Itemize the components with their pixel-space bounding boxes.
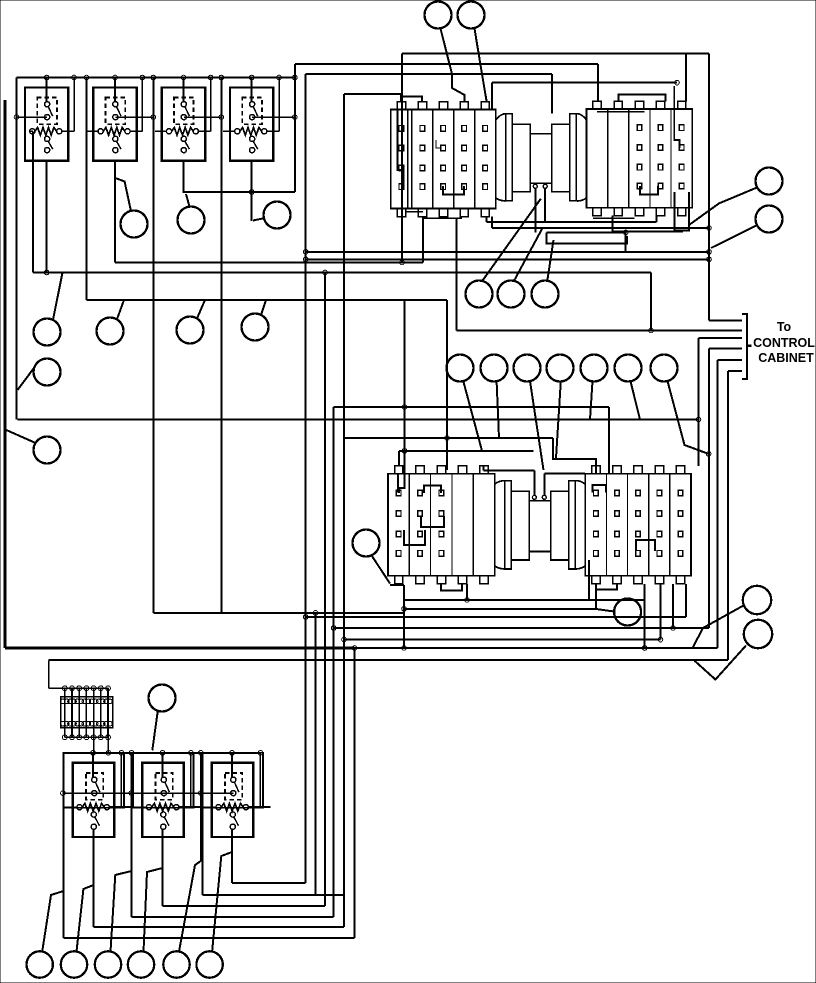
- junction x467 / y600: [465, 598, 470, 603]
- wire run y938: [64, 937, 355, 939]
- wire P1 internal divider wire: [407, 110, 409, 209]
- junction bus / drop x86: [84, 75, 89, 80]
- coupling shaft: [530, 134, 551, 184]
- wire run y470 terminal A: [484, 470, 535, 472]
- relay K3 lower switch: [181, 136, 186, 141]
- connector P2 bottom terminal lug 1: [593, 208, 601, 216]
- junction bus / relay K1 contact feed: [44, 75, 49, 80]
- wire run y617: [306, 616, 686, 618]
- coupling flare right (middle assembly): [576, 481, 585, 484]
- relay K6 coil enclosure (dashed): [155, 773, 172, 800]
- junction riser x355 / y648 run: [352, 646, 357, 651]
- coupling flare left (top assembly): [496, 114, 506, 120]
- wire cabinet lead 3: [699, 337, 742, 339]
- connector P2 pin col3 row3: [637, 164, 642, 170]
- junction y232 / drop x626: [623, 230, 628, 235]
- connector P1 top terminal lug 3: [439, 102, 447, 110]
- junction y83 / drop x677: [675, 80, 680, 85]
- wire relay K3 contact feed: [184, 116, 222, 118]
- wire bus to relay K7 top contact: [231, 753, 233, 777]
- wire relay K2 heater drop from bus: [141, 78, 143, 132]
- leader callout 15: [514, 228, 543, 281]
- wire run y94 to P1 lug1: [344, 93, 401, 95]
- leader callout 21: [590, 381, 593, 419]
- coupling terminal A: [532, 495, 536, 499]
- junction y259 / bundle riser x306: [303, 257, 308, 262]
- wire run y262 from K2 output: [115, 262, 423, 264]
- callout 1 (connector P1): [425, 2, 452, 29]
- connector Q1 pin col3 row3: [439, 531, 444, 537]
- leader callout 28: [152, 711, 158, 751]
- wire run y232: [546, 231, 625, 233]
- wire bus to relay K6 top contact: [162, 753, 164, 777]
- connector Q1 top terminal lug 1: [395, 466, 403, 474]
- svg-text:To: To: [777, 320, 792, 334]
- junction y420 / x698 drop: [696, 417, 701, 422]
- connector Q1 section divider 4: [472, 474, 474, 576]
- connector Q1 top terminal lug 5: [480, 466, 488, 474]
- leader callout 9: [117, 300, 124, 319]
- wire Q1 internal U cols2-3 row3: [421, 516, 444, 527]
- wire relay K4 contact feed: [252, 116, 295, 118]
- junction feed line / bus-end drop: [293, 115, 298, 120]
- connector P2 section divider 3: [649, 109, 651, 208]
- callout 20 (wire y474): [547, 355, 574, 382]
- wire P2 under-lug link y218: [593, 217, 634, 219]
- connector Q2 section divider 3: [648, 474, 650, 576]
- junction bus / drop x153: [151, 75, 156, 80]
- junction y640 / riser x344: [342, 637, 347, 642]
- wire relay K4 output drop: [251, 161, 253, 221]
- wire run y473 terminal B: [544, 473, 585, 475]
- connector Q1 top terminal lug 4: [458, 466, 466, 474]
- junction bus / relay K4 heater drop: [277, 75, 282, 80]
- relay K4 heater element: [240, 128, 262, 136]
- wire cabinet lead 2 run: [457, 330, 742, 332]
- wire bus to relay K4 top contact: [251, 78, 253, 102]
- wire drop x447 into Q1: [446, 300, 448, 470]
- wire bus left end drop: [16, 78, 18, 118]
- terminal TB1-5: [93, 688, 95, 737]
- leader callout 13: [5, 430, 35, 443]
- junction lead4 / callout 23 leader: [706, 452, 711, 457]
- wire TB1 feed drop: [48, 660, 50, 688]
- wire cabinet lead 4: [709, 347, 742, 349]
- connector Q1 section divider 2: [430, 474, 432, 576]
- connector P1 section divider 3: [453, 110, 455, 209]
- bracket nub: [747, 345, 752, 347]
- junction y272 / riser x325: [323, 270, 328, 275]
- leader callout 31: [111, 871, 132, 952]
- coupling drum (right): [551, 491, 569, 560]
- callout 10 (wire y296): [177, 317, 204, 344]
- wire Q2 under-lug link: [596, 584, 617, 590]
- wire relay K3 output to riser x295: [183, 161, 294, 192]
- leader callout 25: [596, 609, 614, 612]
- connector P2 bottom terminal lug 3: [635, 208, 643, 216]
- wire drop Q1 lug4 to y600: [466, 584, 468, 600]
- leader callout 32: [144, 868, 163, 952]
- svg-text:CONTROL: CONTROL: [753, 336, 815, 350]
- connector Q2 section divider 2: [627, 474, 629, 576]
- connector P1 pin col5 row1: [483, 126, 488, 132]
- connector P1 pin col5 row2: [483, 145, 488, 151]
- wire top relay supply bus: [17, 76, 295, 78]
- leader callout 10: [197, 300, 205, 318]
- leader callout 20: [556, 382, 561, 459]
- callout 28 (terminal board): [149, 685, 176, 712]
- connector Q1 pin col1 row1: [396, 490, 401, 496]
- connector Q2 pin col2 row4: [615, 551, 620, 557]
- connector Q2 top terminal lug 5: [676, 466, 684, 474]
- wire relay K2 heater right lead: [130, 130, 142, 132]
- relay K7 heater element: [221, 803, 243, 811]
- junction y628 / riser x334: [331, 626, 336, 631]
- wire cabinet lead 4 drop: [708, 348, 710, 628]
- wire run y438: [344, 437, 553, 439]
- wire top run y74: [306, 73, 552, 75]
- connector P2 pin col4 row3: [658, 164, 663, 170]
- connector P1 pin col2 row3: [420, 165, 425, 171]
- wire K5 enclosure left drop: [63, 808, 65, 938]
- connector Q1 pin col3 row1: [439, 490, 444, 496]
- wire bus to relay K1 top contact: [46, 78, 48, 102]
- coupling drum (right): [552, 124, 570, 192]
- callout 5 (relay K2 output): [121, 211, 148, 238]
- connector P2 top terminal lug 5: [678, 101, 686, 109]
- callout 30 (relay circuit wire): [61, 951, 87, 977]
- junction bus / relay K6 contact feed: [160, 751, 165, 756]
- connector Q2 pin col5 row1: [678, 490, 683, 496]
- junction x404 / y649: [402, 646, 407, 651]
- wire drop x609: [608, 407, 610, 474]
- relay K3 contact switch: [181, 102, 186, 107]
- wire relay K6 heater left lead: [133, 806, 146, 808]
- connector P2 pin col3 row1: [637, 125, 642, 131]
- wire run y300: [86, 299, 447, 301]
- wire stub P1 lug5 to y222: [486, 217, 488, 222]
- wire stub x686 to Q2 lug5: [685, 584, 687, 617]
- leader callout 19: [530, 381, 544, 470]
- connector Q1 pin col2 row1: [418, 490, 423, 496]
- terminal TB1-1: [64, 688, 66, 737]
- junction feed line / K2 drop wire: [151, 115, 156, 120]
- wire P1 under-lug link y218: [423, 217, 462, 219]
- coupling plate (right): [569, 481, 576, 569]
- connector P2 top terminal lug 4: [656, 101, 664, 109]
- connector Q2 bottom terminal lug 4: [655, 576, 663, 584]
- connector Q1 bottom terminal lug 5: [480, 576, 488, 584]
- coupling plate (right): [570, 114, 577, 201]
- wire relay K3 heater left lead: [155, 130, 167, 132]
- wire cabinet lead 5: [718, 359, 742, 361]
- wire P2 internal run y112: [597, 111, 644, 113]
- connector Q2 pin col3 row4: [636, 551, 641, 557]
- wire relay K7 output drop: [231, 829, 233, 883]
- junction bus / drop x201: [199, 751, 204, 756]
- relay K5 inner box: [73, 763, 115, 837]
- connector Q1 bottom terminal lug 3: [437, 576, 445, 584]
- wire P1 under-lug link y212: [406, 211, 423, 213]
- connector P1 pin col3 row3: [441, 165, 446, 171]
- leader callout 5: [115, 178, 131, 211]
- leader callout 7: [253, 218, 264, 220]
- wire TB1 bottom bus: [65, 736, 109, 738]
- wire relay K3 heater right lead: [199, 130, 211, 132]
- wire run y609: [404, 608, 596, 610]
- relay K3 heater element: [172, 128, 194, 136]
- relay K2 contact switch: [113, 102, 118, 107]
- wire run y222 under assembly: [487, 221, 657, 223]
- connector P1 bottom terminal lug 1: [397, 209, 405, 217]
- wire top run y83: [492, 82, 677, 84]
- wire TB1 top bus: [49, 687, 109, 689]
- callout 6 (relay K3 output): [178, 207, 205, 234]
- junction feed line / left drop: [14, 115, 19, 120]
- connector P2 bottom terminal lug 4: [656, 208, 664, 216]
- svg-text:CABINET: CABINET: [758, 351, 814, 365]
- junction y272 / K1 output: [44, 270, 49, 275]
- wire relay K7 heater left lead: [203, 806, 216, 808]
- wire bundle riser x344: [343, 94, 345, 927]
- coupling drum (left): [511, 491, 529, 560]
- connector Q1 bottom terminal lug 4: [458, 576, 466, 584]
- wire run y252 to control riser: [306, 251, 709, 253]
- connector P1 bottom terminal lug 5: [481, 209, 489, 217]
- connector P1 top terminal lug 1: [397, 102, 405, 110]
- connector P1 bottom terminal lug 2: [418, 209, 426, 217]
- wire drop x131 bus to y917: [131, 753, 133, 917]
- connector P1 top terminal lug 4: [460, 102, 468, 110]
- relay K1 lower switch: [45, 136, 50, 141]
- wire bus to relay K2 top contact: [114, 78, 116, 102]
- connector P1 section divider 2: [432, 110, 434, 209]
- callout 14 (coupling lead): [466, 281, 493, 308]
- wire drop x645 from Q2 lug3: [644, 584, 646, 648]
- callout 29 (relay circuit wire): [27, 951, 53, 977]
- wire riser x295: [294, 64, 296, 192]
- wire P2 internal U-link col3-col4: [640, 186, 658, 195]
- connector P1 section divider 1: [411, 110, 413, 209]
- relay K1 coil enclosure (dashed): [37, 97, 57, 124]
- wire run y613 from drop x153: [153, 612, 404, 614]
- callout 24 (connector Q1): [353, 530, 380, 557]
- wire coupling terminal A lead down: [534, 188, 536, 232]
- relay K6 outer enclosure: [133, 753, 194, 808]
- callout 19 (coupling terminal lead): [514, 355, 541, 382]
- wire drop x402: [401, 53, 403, 262]
- wire P2 col5 lower loop: [674, 192, 689, 231]
- relay K2 heater element: [103, 128, 125, 136]
- junction x651 / cabinet lead 2: [649, 328, 654, 333]
- wire run y927: [94, 926, 345, 928]
- wire cabinet lead 5 drop: [717, 360, 719, 648]
- junction bus / relay K4 contact feed: [249, 75, 254, 80]
- connector P1 body: [391, 110, 496, 209]
- wire relay K2 output drop: [114, 161, 116, 263]
- wire drop x492 to P1 body: [491, 83, 493, 110]
- junction bus / drop x221: [219, 75, 224, 80]
- connector Q1 top terminal lug 2: [416, 466, 424, 474]
- connector Q2 pin col3 row3: [636, 531, 641, 537]
- wire cabinet lead 3 drop: [698, 338, 700, 419]
- connector Q2 pin col4 row2: [657, 511, 662, 517]
- wire run y660 (cabinet lead 6): [49, 659, 728, 661]
- relay K7 outer enclosure: [203, 753, 264, 808]
- leader callout 4 to border riser: [711, 226, 757, 249]
- relay K5 lower switch: [91, 812, 96, 817]
- wire drop x698 to Q2: [698, 420, 700, 467]
- leader callout 18: [497, 381, 499, 438]
- wire drop x404 into Q1 pin col1: [399, 451, 405, 493]
- leader callout 14: [482, 199, 541, 281]
- leader callout 6: [186, 194, 190, 207]
- connector Q2 pin col5 row4: [678, 551, 683, 557]
- wire P2 internal drop to pin col5 row2: [674, 86, 679, 148]
- wire jumper P1 lug1-lug2: [401, 97, 422, 102]
- wire relay K4 heater left lead: [223, 130, 235, 132]
- leader callout 27: [694, 646, 746, 680]
- wire stub x390: [390, 584, 404, 586]
- wire relay K6 heater right lead: [179, 806, 201, 808]
- wire relay K2 contact feed: [115, 116, 153, 118]
- connector Q1 section divider 1: [408, 474, 410, 576]
- connector P2 pin col5 row3: [679, 164, 684, 170]
- connector Q2 pin col5 row3: [678, 531, 683, 537]
- connector Q2 pin col4 row1: [657, 490, 662, 496]
- wire drop x673 from Q2 lug4b: [672, 584, 674, 628]
- leader callout 17: [463, 381, 482, 451]
- leader callout 1 to P1: [441, 29, 465, 102]
- wire stub lug1 P1: [400, 94, 402, 102]
- wire relay K5 output drop: [93, 829, 95, 927]
- junction riser x316 / y613: [313, 611, 318, 616]
- wire relay K6 output drop: [161, 829, 163, 906]
- wire TB1 to relay bus: [107, 737, 109, 753]
- wire relay K1 heater drop from bus: [73, 78, 75, 132]
- wire run y628: [334, 627, 709, 629]
- wire P1 internal U-link col3-col4: [443, 186, 464, 195]
- wire run y420: [18, 419, 699, 421]
- wire Q2 internal link row1: [593, 485, 607, 493]
- wire relay K5 heater drop from bus: [120, 753, 122, 807]
- connector P2 pin col4 row4: [658, 183, 663, 189]
- junction y252 / control riser: [707, 250, 712, 255]
- coupling drum (left): [512, 124, 530, 192]
- connector Q2 top terminal lug 1: [592, 466, 600, 474]
- connector P2 top terminal lug 2: [614, 101, 622, 109]
- relay K1 outer box: [25, 88, 68, 161]
- wire coupling terminal B lead down: [544, 188, 546, 222]
- callout 4 (harness): [756, 206, 783, 233]
- connector P1 top terminal lug 5: [481, 102, 489, 110]
- connector Q2 top terminal lug 2: [613, 466, 621, 474]
- junction bus / drop x131: [129, 751, 134, 756]
- callout 13 (left border wire): [34, 437, 61, 464]
- wire coupling terminal B lead up (middle): [543, 474, 545, 496]
- wire bus to relay K5 top contact: [92, 753, 94, 777]
- wire run y407: [334, 406, 609, 408]
- callout 21 (wire y420): [581, 355, 608, 382]
- wire drop P1 lug2 bottom to y262: [422, 217, 424, 263]
- connector Q1 bottom terminal lug 1: [395, 576, 403, 584]
- junction x660 / y640: [658, 637, 663, 642]
- wire run y640: [344, 639, 661, 641]
- connector P2 section divider 2: [628, 109, 630, 208]
- relay K5 heater element: [82, 803, 104, 811]
- relay K2 coil enclosure (dashed): [106, 97, 126, 124]
- connector Q2 pin col5 row2: [678, 511, 683, 517]
- connector P1 pin col3 row4: [441, 184, 446, 190]
- wire relay K1 contact feed: [17, 116, 48, 118]
- callout 8 (wire y272): [34, 319, 61, 346]
- callout 23 (cabinet lead 4): [651, 355, 678, 382]
- wire drop x552 to coupling plate: [551, 74, 553, 114]
- relay K5 contact switch: [92, 777, 97, 782]
- relay K5 coil enclosure (dashed): [86, 773, 103, 800]
- connector P1 pin col4 row3: [462, 165, 467, 171]
- wire left border drop: [3, 100, 6, 648]
- connector P1 bottom terminal lug 4: [460, 209, 468, 217]
- junction y438 / drop x447: [445, 436, 450, 441]
- connector Q2 pin col3 row1: [636, 490, 641, 496]
- connector P1 pin col1 row3: [399, 165, 404, 171]
- connector P1 pin col3 row2: [441, 145, 446, 151]
- wire cabinet lead 2 riser from P1: [456, 218, 458, 330]
- wire control riser upper x709: [708, 53, 710, 320]
- leader callout 30: [77, 885, 94, 952]
- junction bus / relay K6 heater drop: [189, 751, 194, 756]
- connector P2 body: [587, 109, 693, 208]
- coupling plate (left): [506, 114, 513, 201]
- relay K7 coil enclosure (dashed): [225, 773, 242, 800]
- relay K3 outer box: [162, 88, 205, 161]
- connector P2 pin col4 row1: [658, 125, 663, 131]
- connector Q2 pin col2 row2: [615, 511, 620, 517]
- wire top run y53: [402, 52, 709, 54]
- connector P2 pin col5 row2: [679, 145, 684, 151]
- junction feed line / K3 drop wire: [219, 115, 224, 120]
- junction y649 / riser x355: [352, 646, 357, 651]
- wire bundle riser x306: [305, 74, 307, 883]
- connector P1 pin col1 row4: [399, 184, 404, 190]
- wire relay K7 heater right lead: [249, 806, 271, 808]
- connector P1 pin col5 row4: [483, 184, 488, 190]
- wire TB1-5 to relay K5: [93, 737, 95, 753]
- wire run y272: [33, 272, 651, 274]
- connector Q2 pin col2 row1: [615, 490, 620, 496]
- junction bus / relay K1 heater drop: [72, 75, 77, 80]
- junction bus / relay K5 heater drop: [119, 751, 124, 756]
- callout 34 (relay circuit wire): [196, 951, 222, 977]
- wire relay K1 heater right lead: [62, 130, 74, 132]
- wire cabinet lead 6 drop: [727, 371, 729, 660]
- wire stub x596 to Q2 lug1: [595, 584, 597, 609]
- junction y262 / drop x402: [400, 260, 405, 265]
- wire relay K1 output drop: [46, 161, 48, 273]
- callout 15 (coupling lead): [498, 281, 525, 308]
- wire cabinet lead 1: [709, 319, 742, 321]
- leader callout 3 to P2 lower corner: [689, 188, 757, 226]
- wire relay K3 heater drop from bus: [210, 78, 212, 132]
- connector P1 pin col1 row1: [399, 126, 404, 132]
- wire bundle riser x325: [324, 273, 326, 907]
- wire run y895: [203, 894, 345, 896]
- junction bus / relay K2 contact feed: [113, 75, 118, 80]
- junction bus / TB1 link: [106, 751, 111, 756]
- wire jumper P2 lug2-lug4: [619, 94, 666, 101]
- wire drop x626: [625, 232, 627, 253]
